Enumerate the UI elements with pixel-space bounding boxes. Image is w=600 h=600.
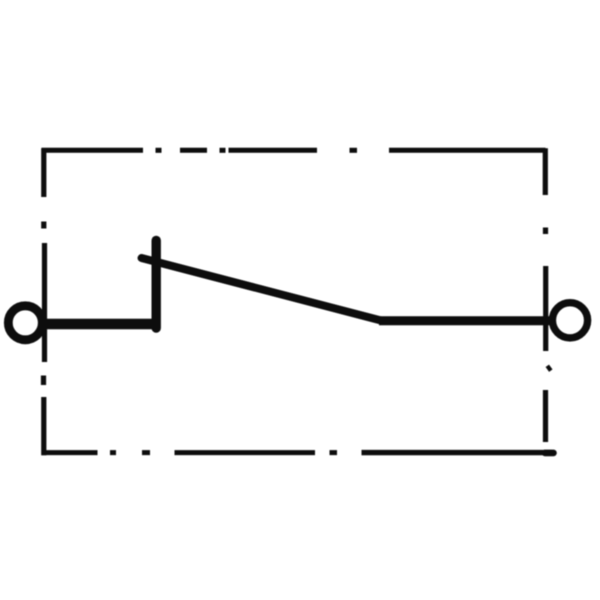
switch S fixed contact post [151, 241, 160, 329]
terminal 2 (right ring) [552, 303, 587, 338]
wire: terminal 1 to contact post [42, 319, 160, 330]
enclosure outline bottom side (dash-dot) [42, 450, 554, 455]
enclosure outline top side (dash-dot) [42, 148, 546, 153]
enclosure outline left side (dash-dot) [44, 148, 45, 455]
enclosure outline right side (dash-dot) [545, 148, 551, 442]
wire: blade landing to terminal 2 [379, 316, 552, 325]
terminal 1 (left ring) [8, 306, 42, 340]
switch S blade (movable contact, open position) [142, 258, 384, 321]
